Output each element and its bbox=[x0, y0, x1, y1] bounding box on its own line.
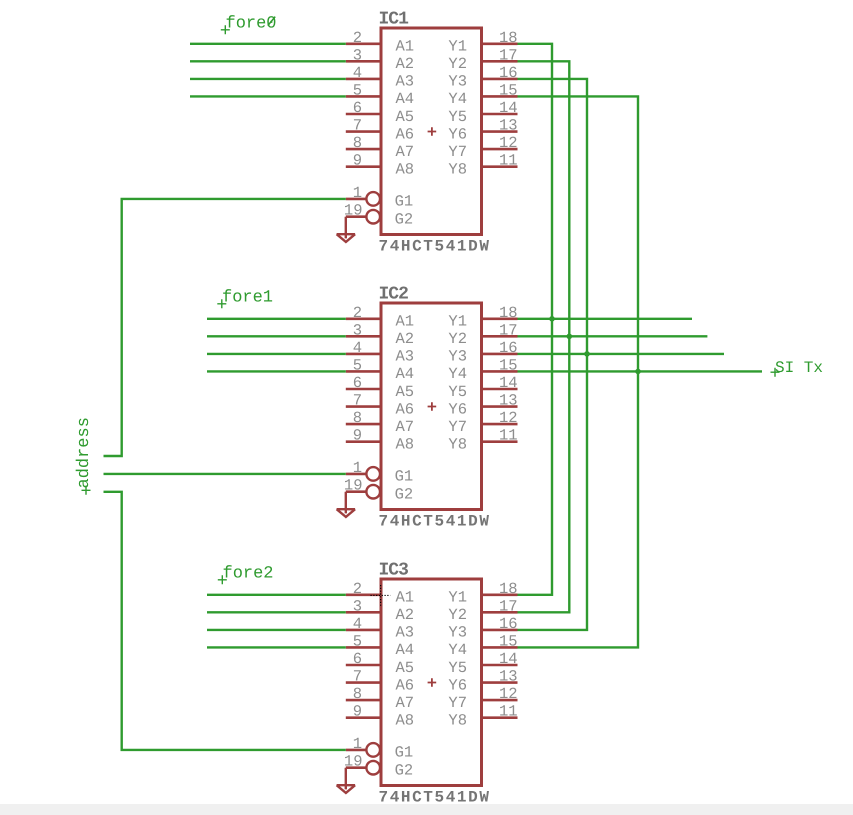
svg-text:IC2: IC2 bbox=[379, 284, 409, 304]
svg-text:IC1: IC1 bbox=[379, 9, 410, 29]
svg-text:address: address bbox=[75, 417, 94, 488]
svg-text:fore2: fore2 bbox=[223, 565, 274, 584]
svg-text:SI Tx: SI Tx bbox=[775, 359, 823, 377]
svg-text:IC3: IC3 bbox=[379, 560, 409, 580]
svg-text:fore1: fore1 bbox=[222, 289, 273, 308]
